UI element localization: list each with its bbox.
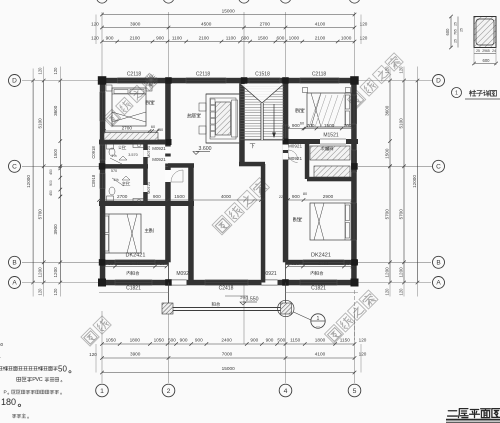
svg-text:2100: 2100 [199,36,210,41]
svg-text:M0921: M0921 [288,144,302,149]
svg-text:7000: 7000 [222,352,233,357]
svg-text:900: 900 [156,36,164,41]
svg-text:80: 80 [303,192,307,196]
svg-text:—: — [316,323,320,328]
svg-text:4100: 4100 [315,352,326,357]
svg-text:1150: 1150 [340,338,350,343]
svg-text:60: 60 [151,125,155,129]
svg-text:4000: 4000 [221,194,232,199]
svg-text:1: 1 [317,316,320,322]
svg-text:1050: 1050 [106,338,117,343]
svg-text:850: 850 [291,261,299,266]
svg-text:4500: 4500 [201,22,212,27]
svg-text:1050: 1050 [154,338,165,343]
svg-text:750: 750 [106,261,114,266]
svg-text:5100: 5100 [38,118,43,129]
svg-text:1500: 1500 [324,123,335,128]
svg-text:900: 900 [292,123,300,128]
svg-text:C2418: C2418 [219,286,234,292]
svg-text:900: 900 [49,180,53,186]
svg-text:C2118: C2118 [196,72,211,78]
svg-text:1500: 1500 [53,148,58,158]
svg-text:0.: 0. [0,354,1,359]
svg-text:450: 450 [49,190,53,196]
svg-text:1800: 1800 [315,338,326,343]
svg-text:1000: 1000 [289,36,300,41]
svg-text:2%: 2% [240,296,246,300]
svg-text:500: 500 [168,338,176,343]
svg-text:450: 450 [49,169,53,175]
svg-text:1150: 1150 [290,338,300,343]
svg-text:120: 120 [359,338,367,343]
svg-text:15000: 15000 [222,9,235,14]
svg-text:24: 24 [492,49,496,53]
svg-text:120: 120 [38,288,43,296]
svg-text:C: C [12,164,17,171]
svg-text:765: 765 [454,29,458,35]
svg-text:C0918: C0918 [91,174,96,187]
svg-text:M1521: M1521 [323,133,339,139]
svg-text:1800: 1800 [130,338,141,343]
svg-text:M0921: M0921 [152,157,166,162]
svg-text:700: 700 [344,123,352,128]
svg-text:D: D [12,78,17,85]
svg-text:3900: 3900 [130,352,141,357]
svg-text:25: 25 [460,28,464,32]
svg-text:1500: 1500 [174,194,185,199]
svg-text:570: 570 [111,169,117,173]
svg-text:900: 900 [195,338,203,343]
svg-text:3900: 3900 [53,224,58,235]
svg-text:C2118: C2118 [127,72,142,78]
svg-text:120: 120 [399,66,404,74]
svg-text:120: 120 [91,36,99,41]
svg-text:C1821: C1821 [311,286,326,292]
svg-text:2: 2 [167,388,171,395]
svg-text:900: 900 [266,338,274,343]
svg-text:900: 900 [106,36,114,41]
svg-text:1%: 1% [113,178,119,182]
svg-text:P: P [4,390,7,396]
svg-text:A: A [12,280,17,287]
svg-text:2700: 2700 [117,194,128,199]
svg-text:12000: 12000 [412,175,417,188]
svg-text:900: 900 [292,194,300,199]
svg-text:3.570: 3.570 [128,153,138,157]
svg-text:600: 600 [241,36,249,41]
svg-text:50: 50 [0,342,3,347]
svg-text:DK2421: DK2421 [126,253,146,259]
svg-text:2900: 2900 [323,194,334,199]
svg-text:C: C [39,377,43,383]
svg-text:DK2421: DK2421 [311,253,331,259]
svg-text:3.600: 3.600 [199,146,212,152]
svg-text:3600: 3600 [53,105,58,116]
svg-text:600: 600 [276,36,284,41]
svg-text:3.550: 3.550 [246,297,259,303]
svg-text:1: 1 [455,91,458,97]
svg-text:1200: 1200 [385,267,390,278]
svg-text:900: 900 [153,194,161,199]
svg-text:1200: 1200 [38,267,43,278]
svg-text:2400: 2400 [221,338,232,343]
svg-text:2400: 2400 [318,261,329,266]
svg-text:120: 120 [53,288,58,296]
svg-text:2400: 2400 [130,261,141,266]
svg-text:1100: 1100 [172,36,182,41]
svg-text:A: A [436,280,441,287]
svg-text:120: 120 [359,352,367,357]
svg-text:5700: 5700 [399,209,404,220]
svg-text:220: 220 [279,195,285,199]
svg-text:M0921: M0921 [152,146,166,151]
svg-text:900: 900 [180,338,188,343]
svg-text:2700: 2700 [122,125,133,130]
svg-text:25: 25 [476,49,480,53]
svg-text:120: 120 [89,352,97,357]
svg-text:C1821: C1821 [126,286,141,292]
svg-text:120: 120 [385,288,390,296]
svg-text:B: B [12,260,16,267]
svg-text:500: 500 [277,338,285,343]
svg-text:120: 120 [53,67,58,75]
svg-text:4100: 4100 [315,22,326,27]
svg-text:D: D [436,78,441,85]
svg-text:5700: 5700 [385,209,390,220]
svg-text:5700: 5700 [38,209,43,220]
svg-text:1500: 1500 [385,148,390,159]
svg-text:700: 700 [307,123,315,128]
svg-text:M0721: M0721 [146,145,151,158]
svg-text:900: 900 [250,338,258,343]
svg-text:25: 25 [454,39,458,43]
svg-text:1100: 1100 [226,36,236,41]
svg-text:2700: 2700 [260,22,271,27]
svg-text:2965: 2965 [482,49,490,53]
svg-text:C: C [436,164,441,171]
svg-text:4: 4 [284,388,288,395]
svg-text:1: 1 [100,388,104,395]
svg-text:C1518: C1518 [255,72,270,78]
svg-text:15000: 15000 [222,366,235,371]
svg-text:2100: 2100 [315,36,326,41]
svg-text:60: 60 [300,122,304,126]
svg-text:M0721: M0721 [146,181,151,194]
svg-text:120: 120 [91,22,99,27]
svg-text:0: 0 [11,397,16,407]
svg-text:120: 120 [399,288,404,296]
svg-text:600: 600 [445,28,450,36]
svg-text:M0921: M0921 [288,156,302,161]
svg-text:3600: 3600 [385,105,390,116]
svg-text:1500: 1500 [258,36,269,41]
svg-text:5: 5 [353,388,357,395]
svg-text:600: 600 [483,58,491,63]
svg-text:0: 0 [62,365,67,374]
svg-text:3900: 3900 [130,22,141,27]
svg-text:5100: 5100 [399,118,404,129]
svg-text:1200: 1200 [399,267,404,278]
svg-text:25: 25 [454,22,458,26]
svg-text:450: 450 [157,128,163,132]
svg-text:C0918: C0918 [91,146,96,159]
svg-text:12000: 12000 [26,175,31,188]
svg-text:120: 120 [38,67,43,75]
svg-text:1200: 1200 [53,267,58,278]
svg-text:C2118: C2118 [312,72,327,78]
svg-text:750: 750 [157,261,165,266]
svg-text:1000: 1000 [341,36,352,41]
svg-text:2100: 2100 [130,36,141,41]
svg-text:B: B [436,260,440,267]
svg-text:120: 120 [385,66,390,74]
